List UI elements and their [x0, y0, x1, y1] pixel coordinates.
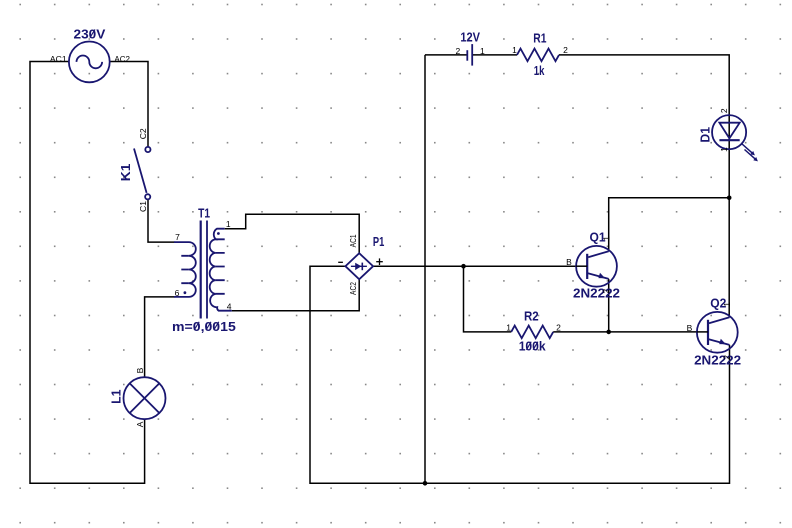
transistor Q1 base bar	[586, 254, 588, 279]
bridge rectifier P1 diamond	[345, 253, 373, 279]
transformer T1 primary winding ticks	[181, 256, 189, 283]
lamp L1 circle	[124, 377, 166, 419]
svg-text:2: 2	[563, 45, 568, 55]
wire 12V rail vertical	[424, 55, 426, 483]
transformer T1 primary polarity dot	[184, 291, 187, 294]
junction node bridge plus / R2	[461, 264, 466, 269]
svg-text:100k: 100k	[519, 339, 547, 354]
LED D1 circle	[712, 115, 746, 149]
svg-text:2: 2	[719, 108, 729, 113]
switch K1 terminal C1	[145, 194, 150, 199]
svg-text:1: 1	[512, 45, 517, 55]
svg-text:2N2222: 2N2222	[573, 285, 620, 300]
wire D1 node down to Q2 collector	[728, 198, 730, 317]
svg-text:7: 7	[175, 232, 180, 242]
wire Q1 emitter down to R2 net	[608, 279, 610, 332]
transistor Q1 collector lead	[588, 251, 609, 257]
svg-text:C1: C1	[138, 201, 148, 212]
wire R1 to D1 top	[559, 55, 729, 198]
svg-text:2: 2	[722, 355, 732, 360]
svg-text:1k: 1k	[534, 63, 545, 78]
battery 12V plus plate	[471, 44, 473, 66]
wire top rail battery to R1 to D1	[425, 54, 467, 56]
svg-text:m=0,0015: m=0,0015	[172, 319, 236, 334]
wire Q1 collector up and right to D1 net	[609, 198, 730, 251]
svg-text:B: B	[135, 367, 145, 373]
svg-text:1: 1	[601, 236, 611, 241]
svg-text:2N2222: 2N2222	[694, 353, 741, 368]
transistor Q1 circle	[576, 246, 617, 287]
transistor Q1 emitter arrow	[598, 273, 605, 279]
junction node D1 / Q1 collector	[727, 196, 732, 201]
svg-text:6: 6	[175, 288, 180, 298]
LED D1 cathode bar	[719, 139, 739, 141]
svg-text:P1: P1	[373, 234, 385, 249]
wire node to R2 pin 1	[464, 266, 512, 332]
svg-text:B: B	[566, 257, 572, 267]
wire battery plus to R1	[473, 54, 517, 56]
transformer T1 secondary winding ticks	[216, 239, 225, 293]
switch K1 terminal C2	[145, 147, 150, 152]
junction node 12V rail / bottom rail	[423, 481, 428, 486]
svg-text:1: 1	[719, 147, 729, 152]
transformer T1 secondary polarity dot	[217, 232, 220, 235]
resistor R1 zigzag	[517, 49, 559, 62]
svg-text:R1: R1	[533, 31, 547, 46]
svg-text:AC1: AC1	[50, 54, 67, 64]
wire AC source right to switch top	[110, 62, 148, 147]
svg-text:1: 1	[722, 302, 732, 307]
transistor Q2 emitter lead	[709, 339, 730, 345]
transformer T1 secondary winding pins 1-4	[210, 229, 232, 311]
svg-text:230V: 230V	[74, 26, 106, 41]
transistor Q2 emitter arrow	[719, 339, 726, 345]
transistor Q1 emitter lead	[588, 273, 609, 279]
transistor Q2 base lead	[697, 331, 708, 333]
svg-text:L1: L1	[108, 389, 123, 404]
wire bridge minus to bottom rail to Q2 emitter	[310, 266, 730, 483]
wire R2 pin 2 to Q2 base	[553, 331, 697, 333]
resistor R2 zigzag	[511, 326, 553, 339]
wire transformer pin 1 to bridge AC1	[225, 214, 360, 253]
svg-text:2: 2	[556, 323, 561, 333]
LED D1 arrow 2	[745, 150, 758, 162]
svg-text:AC2: AC2	[348, 282, 358, 295]
svg-text:1: 1	[226, 219, 231, 229]
transistor Q2 circle	[697, 312, 738, 353]
svg-text:A: A	[135, 421, 145, 427]
svg-text:2: 2	[601, 289, 611, 294]
svg-text:C2: C2	[138, 128, 148, 139]
LED D1 triangle	[719, 123, 739, 139]
wire transformer pin 4 to bridge AC2	[232, 279, 359, 310]
svg-text:12V: 12V	[460, 30, 480, 45]
wire transformer pin 6 to lamp top	[145, 297, 175, 377]
bridge diode line	[351, 265, 367, 267]
svg-text:D1: D1	[698, 126, 713, 142]
transistor Q1 base lead	[576, 265, 587, 267]
transistor Q2 collector lead	[709, 317, 730, 323]
junction node Q1 emitter / R2-Q2	[606, 330, 611, 335]
svg-text:2: 2	[456, 46, 461, 56]
LED D1 arrow 1	[742, 144, 755, 156]
svg-text:R2: R2	[524, 309, 539, 324]
transformer T1 primary winding pins 7-6	[174, 242, 196, 297]
wire switch bottom to transformer pin 7	[148, 200, 175, 243]
svg-text:4: 4	[227, 302, 232, 312]
transformer T1 core lines	[200, 221, 202, 319]
wire AC source left to left rail down to bottom and lamp	[30, 62, 145, 484]
svg-text:1: 1	[480, 46, 485, 56]
transistor Q2 base bar	[707, 320, 709, 345]
svg-text:AC1: AC1	[348, 234, 358, 247]
AC source 230V circle	[69, 42, 110, 83]
battery 12V minus plate	[466, 50, 468, 61]
wire bridge plus to Q1 base	[373, 265, 576, 267]
switch K1 blade	[134, 149, 147, 193]
svg-text:K1: K1	[118, 163, 133, 181]
AC source sine wave	[77, 55, 103, 68]
svg-text:B: B	[687, 323, 693, 333]
pin name plus	[376, 261, 383, 263]
bridge diode bar	[361, 263, 363, 271]
bridge diode triangle	[355, 263, 361, 270]
svg-text:1: 1	[506, 323, 511, 333]
slashed zero marks	[90, 29, 538, 349]
lamp L1 X diagonals	[130, 383, 160, 413]
svg-text:AC2: AC2	[114, 54, 130, 64]
svg-text:T1: T1	[198, 206, 210, 221]
pin name minus	[338, 261, 343, 263]
